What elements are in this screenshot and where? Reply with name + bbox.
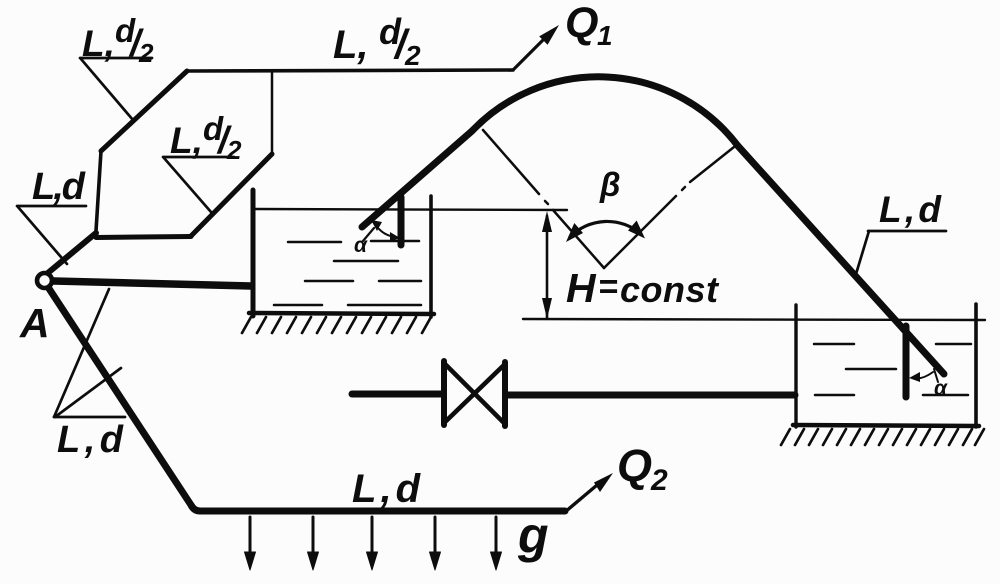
svg-text:H: H [566,265,597,311]
svg-text:L,d: L,d [352,467,422,511]
svg-text:α: α [354,234,368,257]
svg-text:=: = [598,268,618,306]
svg-text:L,: L, [333,23,369,67]
svg-text:L,d: L,d [57,419,124,461]
svg-text:Q: Q [565,0,598,47]
svg-text:Q: Q [617,440,652,491]
svg-text:L,d: L,d [879,189,942,230]
svg-text:α: α [934,377,948,400]
svg-text:L,: L, [82,23,115,64]
svg-text:2: 2 [138,38,154,68]
svg-text:L,d: L,d [32,166,86,208]
svg-text:2: 2 [404,40,421,71]
svg-text:g: g [517,507,549,563]
svg-text:2: 2 [650,464,668,497]
svg-text:β: β [599,166,620,203]
svg-text:1: 1 [597,20,613,51]
svg-text:L,: L, [170,120,203,161]
svg-text:const: const [620,269,720,310]
svg-text:A: A [19,300,50,346]
svg-text:2: 2 [226,135,242,165]
